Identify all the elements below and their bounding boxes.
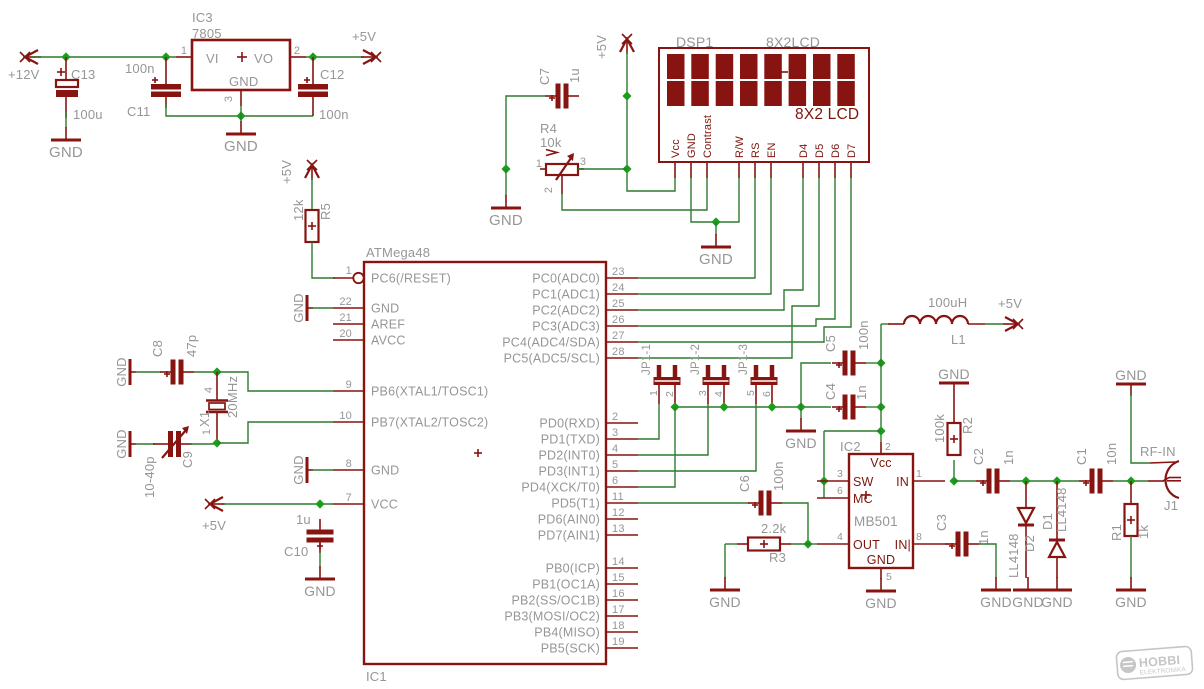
ground pin8: [291, 455, 313, 485]
svg-text:8: 8: [346, 458, 352, 470]
IC1 pin 21 AREF: [333, 312, 405, 332]
svg-text:+12V: +12V: [8, 67, 40, 82]
label C9: [180, 451, 195, 468]
label C12: [320, 67, 344, 82]
junction R3 OUT: [803, 539, 812, 548]
label 1n: [1001, 450, 1016, 465]
voltage regulator IC3 7805: [192, 40, 290, 90]
svg-text:C10: C10: [284, 544, 308, 559]
IC2 pin 5 GND: [881, 568, 892, 583]
wire R1 to gnd: [1130, 536, 1132, 578]
IC1 pin 23 PC0(ADC0): [532, 266, 638, 286]
wire R3 left: [725, 543, 737, 545]
svg-text:1: 1: [346, 265, 352, 277]
svg-text:22: 22: [339, 296, 352, 308]
svg-text:GND: GND: [686, 133, 698, 158]
JP1-2 pin 3 label: [697, 390, 709, 396]
svg-text:C11: C11: [127, 104, 150, 119]
svg-text:PB4(MISO): PB4(MISO): [534, 626, 600, 640]
ground C10: [304, 566, 336, 599]
junction crystal top: [212, 367, 221, 376]
svg-text:IC3: IC3: [192, 10, 213, 25]
label 12k: [291, 199, 306, 221]
svg-text:PB7(XTAL2/TOSC2): PB7(XTAL2/TOSC2): [371, 416, 488, 430]
svg-text:GND: GND: [785, 435, 817, 451]
wire JP1-1 pin1 to PD1: [638, 404, 659, 439]
wire +12V net: [32, 56, 176, 58]
svg-text:C13: C13: [71, 67, 95, 82]
IC3 pin 1: [176, 45, 192, 57]
svg-text:23: 23: [612, 266, 625, 278]
wire SW to MC: [823, 481, 825, 498]
label D1: [1040, 513, 1055, 530]
label R2: [960, 417, 975, 434]
svg-text:C2: C2: [971, 448, 986, 465]
wire gnd rail: [675, 406, 831, 408]
label C10: [284, 544, 308, 559]
svg-text:JP1-1: JP1-1: [641, 344, 653, 375]
svg-text:Contrast: Contrast: [702, 115, 714, 158]
wire C9 to crystal: [190, 443, 217, 445]
label C4: [823, 383, 838, 400]
svg-text:D7: D7: [846, 144, 858, 158]
junction crystal bottom: [212, 438, 221, 447]
wire EN to PC1: [638, 178, 771, 294]
svg-text:3: 3: [697, 390, 709, 396]
wire R2 to IN: [953, 460, 955, 481]
junction Vcc SW: [876, 426, 885, 435]
junction C10: [315, 499, 324, 508]
svg-text:28: 28: [612, 346, 625, 358]
label 20MHz: [225, 376, 240, 418]
IC1 pin 11 PD5(T1): [551, 491, 638, 511]
ground C9: [114, 429, 136, 459]
wire R3 to gnd: [724, 544, 726, 578]
+5V supply top: [361, 50, 381, 64]
label 10k: [540, 135, 562, 150]
wire JP1-1 pin2 down: [674, 404, 676, 407]
wire C2 to C1: [1010, 480, 1079, 482]
wire rail to C5: [801, 363, 831, 407]
svg-text:1: 1: [648, 390, 660, 396]
svg-text:GND: GND: [291, 455, 306, 485]
wire OUT stub: [808, 543, 817, 545]
wire gnd to C8: [135, 371, 161, 373]
capacitor C4 1n: [832, 395, 866, 420]
label R5: [318, 203, 333, 220]
LCD pin D7: [846, 144, 858, 178]
junction C11 top: [161, 52, 170, 61]
svg-text:4: 4: [713, 391, 725, 397]
crystal X1 20MHz: [206, 372, 228, 443]
ground C8: [114, 357, 136, 387]
wire +5V rail: [626, 52, 628, 96]
svg-text:AREF: AREF: [371, 318, 405, 332]
watermark logo: [1116, 646, 1193, 680]
junction R4 pin3: [622, 164, 631, 173]
wire JP1-2 pin3 to PD2: [638, 404, 708, 455]
svg-text:3: 3: [837, 468, 843, 480]
wire JP1-3 pin6 down: [771, 404, 773, 407]
jumper JP1-2: [703, 365, 730, 404]
svg-text:2: 2: [664, 391, 676, 397]
svg-text:C12: C12: [320, 67, 344, 82]
svg-text:PC4(ADC4/SDA): PC4(ADC4/SDA): [502, 336, 600, 350]
svg-text:21: 21: [339, 312, 352, 324]
junction R4 pin1: [501, 164, 510, 173]
wire to SW: [824, 430, 881, 432]
svg-text:RF-IN: RF-IN: [1140, 444, 1176, 459]
svg-text:R2: R2: [960, 417, 975, 434]
label +12V: [8, 67, 40, 82]
svg-text:4: 4: [837, 531, 843, 543]
LCD pin D6: [830, 144, 842, 178]
svg-text:100n: 100n: [319, 107, 349, 122]
capacitor C1 10n: [1079, 469, 1113, 494]
junction C7 right: [622, 91, 631, 100]
capacitor C13 100u electrolytic: [56, 57, 78, 118]
label C7: [537, 68, 552, 85]
R3 left lead: [737, 543, 748, 545]
svg-text:EN: EN: [766, 142, 778, 158]
svg-text:+5V: +5V: [352, 29, 376, 44]
wire C13 to ground: [65, 112, 67, 128]
svg-text:PD3(INT1): PD3(INT1): [538, 465, 600, 479]
svg-text:PB5(SCK): PB5(SCK): [541, 642, 600, 656]
svg-text:R3: R3: [769, 550, 786, 565]
svg-text:5: 5: [612, 459, 618, 471]
svg-text:12k: 12k: [291, 199, 306, 221]
capacitor C10 1u: [307, 519, 334, 553]
svg-text:D2: D2: [1022, 535, 1037, 552]
svg-text:VCC: VCC: [371, 498, 398, 512]
svg-text:6: 6: [837, 485, 843, 497]
wire LCD R/W: [716, 178, 739, 222]
label 100n: [125, 61, 155, 76]
label 1n: [854, 385, 869, 400]
svg-text:MC: MC: [853, 492, 873, 506]
wire C8 to crystal: [194, 371, 217, 373]
label L1: [951, 332, 966, 347]
svg-text:C7: C7: [537, 68, 552, 85]
label C13: [71, 67, 95, 82]
label R4: [540, 121, 557, 136]
label C3: [934, 514, 949, 531]
svg-text:47p: 47p: [184, 335, 199, 357]
LCD pin D5: [814, 144, 826, 178]
wire +5V rail 2: [626, 96, 628, 169]
IC1 pin 16 PB2(SS/OC1B): [511, 588, 638, 608]
capacitor C7 1u: [545, 84, 579, 109]
junction rail JP1-3: [767, 402, 776, 411]
diode D1 LL4148: [1049, 481, 1065, 578]
svg-text:GND: GND: [699, 251, 733, 268]
svg-text:R1: R1: [1109, 524, 1124, 541]
label IC1: [366, 669, 387, 684]
wire C6 to OUT: [782, 503, 808, 544]
svg-text:PD2(INT0): PD2(INT0): [538, 449, 600, 463]
LCD pin RS: [750, 142, 762, 178]
svg-text:GND: GND: [865, 595, 897, 611]
svg-text:17: 17: [612, 604, 625, 616]
label 100uH: [928, 295, 967, 310]
label RF-IN: [1140, 444, 1176, 459]
svg-text:3: 3: [580, 156, 586, 168]
svg-text:PC3(ADC3): PC3(ADC3): [532, 320, 600, 334]
svg-text:6: 6: [761, 391, 773, 397]
svg-text:1u: 1u: [296, 512, 311, 527]
svg-text:GND: GND: [291, 293, 306, 323]
svg-text:PC6(/RESET): PC6(/RESET): [371, 272, 451, 286]
svg-text:GND: GND: [114, 357, 129, 387]
svg-text:R4: R4: [540, 121, 557, 136]
svg-text:100u: 100u: [73, 107, 103, 122]
label 100n: [319, 107, 349, 122]
svg-text:10: 10: [339, 410, 352, 422]
trimmer capacitor C9 10-40p: [153, 426, 192, 458]
+5V supply R5: [305, 160, 319, 180]
svg-text:100n: 100n: [125, 61, 155, 76]
svg-text:D4: D4: [798, 144, 810, 158]
svg-text:GND: GND: [709, 594, 741, 610]
svg-text:20MHz: 20MHz: [225, 376, 240, 418]
IC2 pin 6 MC: [817, 485, 849, 498]
svg-text:24: 24: [612, 282, 625, 294]
svg-text:IN|: IN|: [895, 538, 911, 552]
junction gnd net: [236, 111, 245, 120]
wire JP1-2 pin4 down: [723, 404, 725, 407]
svg-text:16: 16: [612, 588, 625, 600]
svg-text:AVCC: AVCC: [371, 334, 406, 348]
svg-text:PD7(AIN1): PD7(AIN1): [538, 529, 600, 543]
svg-text:3: 3: [223, 96, 235, 102]
IC1 pin 27 PC4(ADC4/SDA): [502, 330, 638, 350]
IC1 pin 12 PD6(AIN0): [538, 507, 638, 527]
svg-text:1: 1: [201, 429, 213, 435]
svg-text:L1: L1: [951, 332, 966, 347]
svg-text:19: 19: [612, 636, 625, 648]
R3 right lead: [780, 543, 791, 545]
IC1 pin 1 PC6(/RESET): [333, 265, 451, 286]
label D2: [1022, 535, 1037, 552]
svg-text:GND: GND: [114, 429, 129, 459]
svg-text:PB0(ICP): PB0(ICP): [546, 562, 600, 576]
junction rail gnd: [796, 402, 805, 411]
label C2: [971, 448, 986, 465]
svg-text:6: 6: [612, 475, 618, 487]
svg-text:27: 27: [612, 330, 625, 342]
ground IC2: [865, 578, 897, 611]
svg-text:1u: 1u: [567, 68, 582, 83]
IC1 pin 3 PD1(TXD): [541, 427, 638, 447]
resistor R3 2.2k: [748, 538, 780, 551]
IC3 pin 3: [223, 90, 241, 106]
X1 pin 4 label: [203, 387, 215, 393]
svg-text:GND: GND: [224, 138, 258, 155]
label +5V R5: [279, 160, 294, 184]
wire +5V to VCC: [224, 503, 333, 505]
svg-text:4: 4: [612, 443, 618, 455]
microcontroller IC1 ATMega48: [364, 262, 606, 664]
wire LCD gnd stub: [715, 222, 717, 235]
ground rail: [785, 418, 817, 451]
label 10-40p: [142, 456, 157, 498]
svg-text:GND: GND: [489, 212, 523, 229]
+12V input arrow: [20, 50, 41, 64]
IC2 pin 4 OUT: [817, 531, 849, 544]
resistor R1 1k: [1130, 481, 1132, 504]
IC1 pin 20 AVCC: [333, 328, 406, 348]
svg-text:+5V: +5V: [594, 35, 609, 59]
label C6: [737, 475, 752, 492]
IC1 pin 28 PC5(ADC5/SCL): [504, 346, 638, 366]
svg-text:MB501: MB501: [854, 514, 898, 529]
svg-text:2: 2: [612, 411, 618, 423]
svg-text:VO: VO: [254, 51, 273, 66]
svg-text:100n: 100n: [771, 461, 786, 491]
svg-text:26: 26: [612, 314, 625, 326]
svg-text:10-40p: 10-40p: [142, 456, 157, 498]
svg-text:18: 18: [612, 620, 625, 632]
svg-text:GND: GND: [371, 302, 399, 316]
R4 pin 1 label: [536, 158, 542, 170]
capacitor C11 100n: [151, 57, 181, 108]
svg-text:7805: 7805: [192, 26, 222, 41]
svg-text:JP1-3: JP1-3: [738, 344, 750, 375]
label C11: [127, 104, 150, 119]
IC1 pin 18 PB4(MISO): [534, 620, 638, 640]
svg-text:13: 13: [612, 523, 625, 535]
svg-text:C9: C9: [180, 451, 195, 468]
svg-text:LL4148: LL4148: [1006, 533, 1021, 578]
wire L1 to +5V: [985, 323, 1003, 325]
wire D4 to PC2: [638, 178, 803, 310]
svg-text:VI: VI: [206, 51, 219, 66]
resistor R1 body: [1125, 504, 1138, 536]
capacitor C8 47p: [160, 360, 194, 385]
svg-text:R/W: R/W: [734, 136, 746, 158]
junction SW MC: [819, 476, 828, 485]
label 47p: [184, 335, 199, 357]
svg-text:IC1: IC1: [366, 669, 387, 684]
wire gnd stub: [240, 116, 242, 122]
svg-text:PC1(ADC1): PC1(ADC1): [532, 288, 600, 302]
svg-text:1k: 1k: [1136, 525, 1151, 539]
X1 pin 1 label: [201, 429, 213, 435]
svg-text:X1: X1: [197, 411, 212, 427]
svg-text:GND: GND: [1041, 594, 1073, 610]
label 100k: [932, 414, 947, 443]
label LL4148: [1054, 487, 1069, 532]
connector J1 RF-IN: [1148, 461, 1181, 498]
svg-text:5: 5: [745, 390, 757, 396]
wire crystal to PB7: [217, 422, 333, 443]
wire R4 pin3 to rail: [578, 168, 627, 170]
svg-text:PD0(RXD): PD0(RXD): [539, 417, 600, 431]
wire shield: [1131, 394, 1150, 463]
svg-text:15: 15: [612, 572, 625, 584]
wire L1 corner: [881, 323, 889, 325]
wire rail gnd stub: [800, 407, 802, 419]
svg-text:RS: RS: [750, 142, 762, 158]
JP1-2 label: [690, 344, 702, 375]
wire bottom gnd net: [166, 104, 313, 116]
wire SW drop: [823, 431, 825, 481]
label IC2: [840, 439, 861, 454]
label DSP1: [676, 34, 713, 50]
svg-text:PD1(TXD): PD1(TXD): [541, 433, 600, 447]
ground C13: [49, 127, 83, 161]
wire LCD GND: [691, 178, 716, 222]
svg-text:1n: 1n: [1001, 450, 1016, 465]
label 100n: [771, 461, 786, 491]
IC2 pin 3 SW: [817, 468, 849, 481]
diode D2 LL4148: [1018, 481, 1034, 578]
IC1 pin 9 PB6(XTAL1/TOSC1): [333, 379, 488, 399]
svg-text:3: 3: [612, 427, 618, 439]
label 10n: [1104, 443, 1119, 465]
IC2 pin 2 Vcc: [881, 441, 891, 454]
IC1 pin 13 PD7(AIN1): [538, 523, 638, 543]
IC1 pin 5 PD3(INT1): [538, 459, 638, 479]
svg-text:GND: GND: [304, 583, 336, 599]
ground R2 top: [938, 366, 970, 423]
svg-text:Vcc: Vcc: [670, 139, 682, 158]
capacitor C5 100n: [832, 351, 866, 376]
junction J1: [1126, 476, 1135, 485]
svg-text:11: 11: [612, 491, 624, 503]
wire R4 wiper to LCD Contrast: [562, 178, 707, 210]
svg-text:ATMega48: ATMega48: [366, 245, 430, 260]
label +5V: [202, 518, 226, 533]
jumper JP1-3: [751, 365, 778, 404]
svg-text:LL4148: LL4148: [1054, 487, 1069, 532]
jumper JP1-1: [654, 365, 681, 404]
JP1-3 pin 6 label: [761, 391, 773, 397]
svg-text:7: 7: [346, 492, 352, 504]
IC1 pin 25 PC2(ADC2): [532, 298, 638, 318]
svg-text:GND: GND: [980, 594, 1012, 610]
LCD pin EN: [766, 142, 778, 178]
potentiometer R4 10k: [540, 150, 584, 195]
junction rail JP1-2: [719, 402, 728, 411]
LCD pin R/W: [734, 136, 746, 178]
svg-text:+5V: +5V: [202, 518, 226, 533]
label 1n: [976, 530, 991, 545]
+5V supply VCC: [205, 497, 225, 511]
wire PD5 to C6: [638, 502, 749, 504]
svg-text:Vcc: Vcc: [870, 456, 891, 470]
svg-text:1n: 1n: [854, 385, 869, 400]
wire C1 to J1: [1113, 480, 1148, 482]
wire crystal to PB6: [217, 372, 333, 391]
svg-text:PC0(ADC0): PC0(ADC0): [532, 272, 600, 286]
capacitor C6 100n: [748, 491, 782, 516]
svg-text:PB1(OC1A): PB1(OC1A): [532, 578, 600, 592]
svg-text:SW: SW: [853, 475, 874, 489]
svg-text:14: 14: [612, 556, 625, 568]
LCD pin D4: [798, 144, 810, 178]
label +5V: [352, 29, 376, 44]
svg-text:12: 12: [612, 507, 625, 519]
svg-text:GND: GND: [229, 74, 259, 89]
wire JP1-3 pin5 to PD3: [638, 404, 756, 471]
JP1-1 pin 2 label: [664, 391, 676, 397]
svg-text:JP1-2: JP1-2: [690, 344, 702, 375]
svg-text:2: 2: [885, 441, 891, 453]
svg-text:PD6(AIN0): PD6(AIN0): [538, 513, 600, 527]
ground D1: [1041, 577, 1073, 610]
